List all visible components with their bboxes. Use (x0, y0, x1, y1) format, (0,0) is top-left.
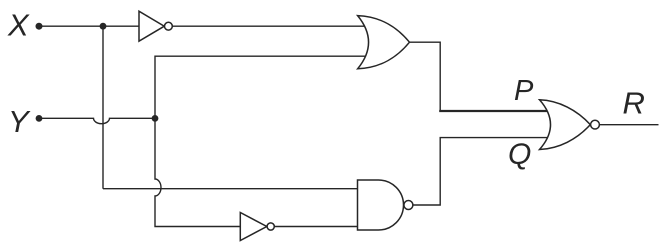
wire X branch horizontal to NAND top input (103, 188, 358, 190)
wire X input to inverter U1 (39, 25, 140, 27)
svg-text:Y: Y (8, 104, 31, 139)
inverter U1 triangle (139, 11, 164, 41)
wire NAND output up to NOR Q input (413, 138, 548, 205)
terminal dot Y (36, 115, 43, 122)
svg-text:P: P (514, 75, 534, 107)
wire inverter U2 output to NAND lower input (274, 226, 357, 228)
terminal dot X (36, 23, 43, 30)
wire P (thick) to NOR gate top input (439, 110, 548, 112)
wire inverter U1 output to OR gate top input (172, 25, 368, 27)
wire or-gate G1 output down to NOR P input (410, 42, 441, 111)
svg-text:R: R (623, 86, 645, 121)
wire X branch vertical down (102, 26, 104, 189)
inverter U1 bubble (165, 22, 173, 30)
or-gate G1 (358, 16, 410, 69)
nor-gate G3 bubble (591, 120, 600, 129)
wire Y branch down with hop over X branch, to inverter U2 (155, 118, 241, 226)
inverter U2 triangle (240, 213, 266, 241)
wire output R (599, 124, 658, 126)
nand-gate G2 body (358, 180, 404, 230)
node Y junction (152, 115, 159, 122)
wire Y input with hop over X branch (39, 118, 155, 123)
node X junction (100, 23, 107, 30)
inverter U2 bubble (267, 223, 274, 230)
nand-gate G2 bubble (404, 201, 413, 210)
nor-gate G3 body (540, 100, 591, 150)
svg-text:Q: Q (508, 138, 531, 171)
svg-text:X: X (7, 7, 30, 42)
wire Y branch up to OR gate lower input (155, 56, 368, 118)
